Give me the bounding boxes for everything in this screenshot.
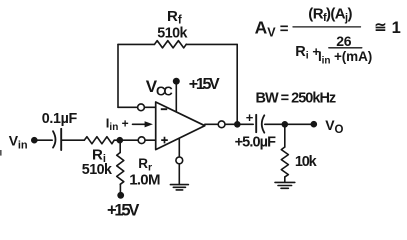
resistor RL 10k vertical zigzag <box>281 147 288 177</box>
pin circle inverting input <box>138 104 145 111</box>
resistor Ri zigzag <box>84 137 114 144</box>
arrow Iin direction line <box>133 123 147 125</box>
wire feedback left vertical <box>117 44 119 107</box>
svg-text:26: 26 <box>336 33 352 49</box>
fraction bar inner <box>329 47 362 49</box>
wire 10k top lead <box>284 124 286 147</box>
node output feedback junction <box>234 121 241 128</box>
svg-text:10k: 10k <box>295 154 318 170</box>
wire output pin to feedback junction <box>225 123 237 125</box>
capacitor C2 plates <box>255 115 257 132</box>
ground symbol op-amp <box>170 185 188 190</box>
svg-text:+: + <box>246 110 254 125</box>
svg-text:1: 1 <box>392 19 401 37</box>
pin circle ground <box>176 157 183 164</box>
svg-text:≅: ≅ <box>374 20 386 36</box>
wire C2 to Vo <box>265 123 314 125</box>
svg-text:1.0M: 1.0M <box>129 171 160 188</box>
svg-text:BW = 250kHz: BW = 250kHz <box>256 91 336 107</box>
wire C1 to Ri <box>62 139 84 141</box>
wire output tip to output pin circle <box>205 123 218 125</box>
capacitor C1 0.1uF plates <box>53 131 56 147</box>
node junction Ri/Rr/+input <box>117 137 124 144</box>
wire VCC dot to op-amp top edge <box>175 84 177 113</box>
svg-text:Ri +: Ri + <box>295 44 320 62</box>
svg-text:0.1µF: 0.1µF <box>42 111 78 127</box>
wire feedback right vertical to output node <box>236 44 238 124</box>
wire op-amp bottom pin <box>178 138 180 157</box>
wire feedback top right segment <box>186 43 237 45</box>
wire Ri to junction node <box>114 139 119 141</box>
fraction bar main <box>293 26 361 28</box>
wire Rr top lead <box>119 140 121 152</box>
wire ground pin to ground <box>178 164 180 185</box>
wire junction to noninverting pin <box>120 139 156 141</box>
pin circle output <box>218 121 225 128</box>
wire 10k to ground <box>284 177 286 182</box>
pin circle noninverting input <box>138 137 145 144</box>
ground symbol 10k <box>275 182 295 188</box>
wire Vin to C1 <box>37 139 52 141</box>
svg-text:+5.0µF: +5.0µF <box>235 134 276 150</box>
wire Rr to +15V dot <box>119 185 121 193</box>
svg-text:510k: 510k <box>82 162 112 178</box>
scan artifact left edge <box>0 150 2 156</box>
resistor Rr vertical zigzag <box>117 153 124 185</box>
node Vin terminal dot <box>31 137 38 144</box>
arrow Iin head <box>145 121 153 127</box>
op-amp plus sign <box>161 137 168 144</box>
wire junction to C2 <box>237 123 253 125</box>
node VCC supply dot <box>173 78 180 85</box>
wire inverting input <box>118 106 156 108</box>
svg-text:+15V: +15V <box>107 202 139 219</box>
wire feedback top left segment <box>118 43 155 45</box>
svg-text:510k: 510k <box>157 26 187 42</box>
node Vo terminal dot <box>311 121 318 128</box>
node +15V bottom supply dot <box>117 192 124 199</box>
resistor Rf zigzag <box>155 41 187 48</box>
op-amp U1 triangle <box>156 102 205 150</box>
op-amp minus sign <box>161 108 167 110</box>
svg-text:+15V: +15V <box>189 76 220 93</box>
node 10k junction <box>282 121 289 128</box>
